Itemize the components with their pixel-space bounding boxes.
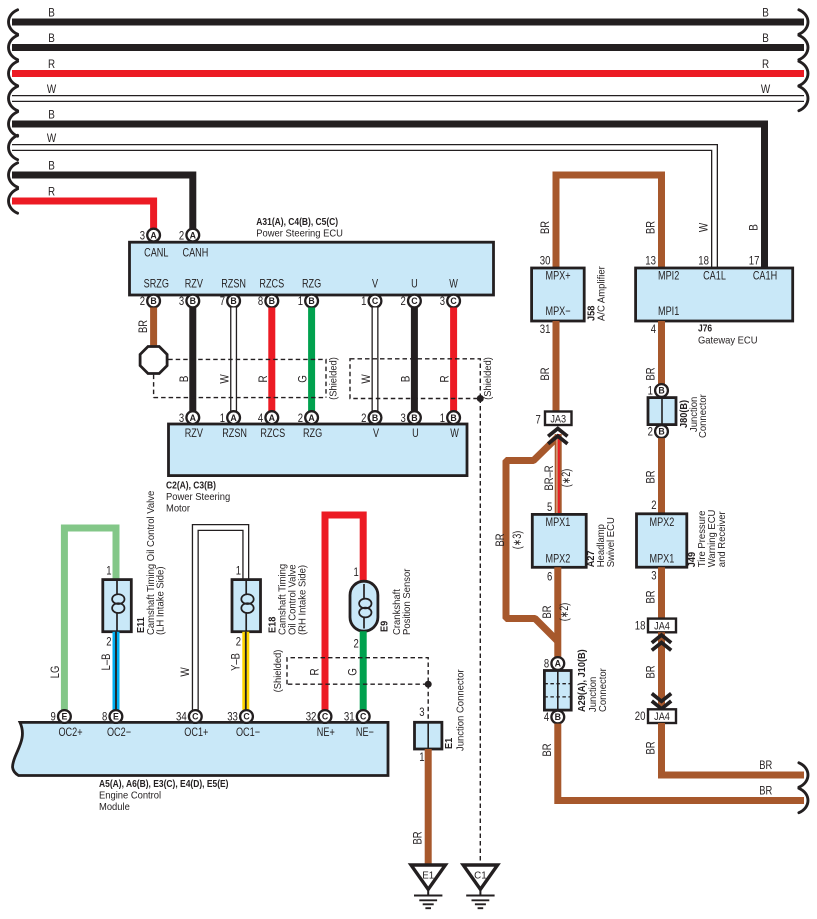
pin 34(C) ECM OC1+ (176, 710, 202, 724)
svg-text:1: 1 (106, 563, 112, 577)
svg-text:CA1H: CA1H (753, 268, 777, 282)
shield box VUW dashed (350, 359, 480, 399)
svg-text:A29(A), J10(B): A29(A), J10(B) (577, 649, 588, 712)
svg-text:3: 3 (440, 294, 446, 308)
svg-text:C: C (411, 296, 418, 306)
dashed shield drain to E1 connector (427, 684, 429, 722)
chevron down JA4-20 (652, 694, 671, 709)
break symbol right bus3 (799, 61, 808, 85)
svg-text:Module: Module (99, 802, 130, 813)
pin 33(C) ECM OC1− (227, 710, 253, 724)
svg-text:BR: BR (759, 759, 772, 772)
pin 2(A) Motor RZG (298, 411, 318, 425)
svg-text:LG: LG (49, 666, 62, 679)
svg-text:BR: BR (541, 744, 554, 757)
svg-text:C2(A), C3(B): C2(A), C3(B) (166, 480, 216, 491)
svg-text:3: 3 (179, 294, 185, 308)
svg-text:4: 4 (544, 710, 550, 724)
svg-text:B: B (555, 712, 561, 722)
svg-text:V: V (373, 426, 379, 440)
ECM A5 Engine Control Module box (13, 722, 388, 775)
svg-text:BR–R: BR–R (543, 466, 556, 491)
svg-text:(Shielded): (Shielded) (329, 357, 340, 400)
wire B RZV (189, 308, 196, 412)
pin 4(A) Motor RZCS (258, 411, 278, 425)
svg-text:1: 1 (648, 384, 654, 398)
svg-text:B: B (48, 7, 55, 20)
svg-text:2: 2 (401, 294, 407, 308)
connector JA4-18 box (648, 619, 676, 633)
svg-text:R: R (257, 375, 270, 382)
svg-text:5: 5 (547, 500, 553, 514)
svg-text:RZCS: RZCS (260, 426, 285, 440)
svg-text:RZV: RZV (185, 426, 203, 440)
pin 1(B) ECU bottom (298, 294, 318, 308)
svg-text:B: B (150, 296, 156, 306)
svg-text:(∗2): (∗2) (558, 603, 571, 622)
svg-text:JA4: JA4 (654, 711, 670, 723)
pin 1(B) Motor W (440, 411, 460, 425)
shield box RZV group dashed (154, 359, 326, 397)
svg-text:B: B (748, 224, 761, 231)
svg-text:2: 2 (298, 411, 304, 425)
svg-text:Y–B: Y–B (230, 653, 243, 671)
svg-text:R: R (309, 668, 322, 675)
svg-text:MPI2: MPI2 (658, 268, 680, 282)
wire BR J49 to JA4 (658, 567, 665, 618)
svg-text:E: E (61, 712, 67, 722)
svg-text:B: B (372, 413, 378, 423)
svg-text:W: W (360, 374, 373, 383)
pin 3(B) ECU bottom (179, 294, 199, 308)
pin 7(B) ECU bottom (220, 294, 240, 308)
wire BR A27 MPX2 down (554, 567, 561, 657)
pin 8(A) A29 (544, 657, 564, 671)
svg-text:1: 1 (440, 411, 446, 425)
svg-text:R: R (48, 186, 55, 199)
svg-text:Motor: Motor (166, 504, 191, 515)
svg-text:2: 2 (361, 411, 367, 425)
pin 1(B) J80 (648, 384, 668, 398)
svg-text:E9: E9 (380, 621, 391, 632)
svg-text:BR: BR (759, 784, 772, 797)
svg-text:A/C Amplifier: A/C Amplifier (597, 266, 608, 321)
wire W V phase (372, 308, 379, 412)
chevron continuation JA3 (548, 429, 567, 444)
svg-text:BR: BR (645, 742, 658, 755)
wire R RZCS (268, 308, 275, 412)
pin 31(C) ECM NE− (344, 710, 370, 724)
junction connector J80 box (648, 398, 676, 425)
Motor C2 Power Steering Motor box (169, 424, 468, 476)
wire BR JA4-20 to right edge (662, 723, 805, 775)
svg-text:NE+: NE+ (317, 725, 335, 739)
wire R W phase (450, 308, 457, 412)
svg-text:B: B (658, 386, 664, 396)
svg-text:W: W (47, 132, 56, 145)
svg-text:OC2−: OC2− (107, 725, 131, 739)
valve E11 Camshaft Timing Oil Control Valve box (103, 580, 132, 632)
svg-text:MPX−: MPX− (546, 304, 571, 318)
wire bus B5 to CA1H (12, 124, 765, 268)
pin 3(A) CANL (140, 228, 160, 242)
svg-text:B: B (658, 427, 664, 437)
svg-text:(RH Intake Side): (RH Intake Side) (298, 565, 309, 635)
svg-text:JA3: JA3 (550, 413, 566, 425)
svg-text:RZSN: RZSN (221, 276, 246, 290)
svg-text:BR: BR (494, 534, 507, 547)
svg-text:A31(A), C4(B), C5(C): A31(A), C4(B), C5(C) (256, 217, 338, 228)
svg-text:1: 1 (220, 411, 226, 425)
svg-text:G: G (297, 375, 310, 383)
svg-text:OC1+: OC1+ (184, 725, 208, 739)
svg-text:1: 1 (298, 294, 304, 308)
break symbol left bus3 (9, 61, 18, 85)
pin 3(A) Motor RZV (179, 411, 199, 425)
svg-text:Engine Control: Engine Control (99, 791, 161, 802)
break symbol left bus1 (9, 10, 18, 34)
svg-text:A: A (555, 659, 562, 669)
svg-text:A: A (269, 413, 276, 423)
wire bus W6 to CA1L (12, 148, 715, 269)
break symbol left bus6 (9, 135, 18, 159)
wire BR between JA4 (658, 632, 665, 709)
svg-text:B: B (308, 296, 314, 306)
svg-text:B: B (411, 413, 417, 423)
pin 1(A) Motor RZSN (220, 411, 240, 425)
svg-text:2: 2 (140, 294, 146, 308)
svg-text:C: C (450, 296, 457, 306)
break symbol right bus4 (799, 86, 808, 110)
svg-text:B: B (48, 32, 55, 45)
wire bus R3 horizontal (12, 70, 804, 77)
svg-text:3: 3 (140, 228, 146, 242)
svg-text:Junction Connector: Junction Connector (456, 669, 467, 751)
svg-text:C: C (372, 296, 379, 306)
svg-text:(LH Intake Side): (LH Intake Side) (156, 567, 167, 636)
svg-text:A5(A), A6(B), E3(C), E4(D), E5: A5(A), A6(B), E3(C), E4(D), E5(E) (99, 779, 229, 790)
svg-text:(Shielded): (Shielded) (273, 650, 284, 693)
svg-text:20: 20 (635, 709, 646, 723)
svg-text:3: 3 (401, 411, 407, 425)
svg-text:Power Steering ECU: Power Steering ECU (256, 229, 343, 240)
svg-text:B: B (230, 296, 236, 306)
pin 2(A) CANH (179, 228, 199, 242)
wire BR J80 to J49 (658, 438, 665, 514)
svg-text:Connector: Connector (698, 394, 709, 438)
svg-text:B: B (190, 296, 196, 306)
svg-text:W: W (449, 276, 458, 290)
svg-text:A: A (190, 230, 197, 240)
ECU A27 Headlamp Swivel ECU box (532, 514, 586, 567)
svg-text:2: 2 (354, 637, 360, 651)
svg-text:R: R (48, 58, 55, 71)
svg-text:1: 1 (361, 294, 367, 308)
svg-text:(∗3): (∗3) (511, 531, 524, 550)
svg-text:U: U (411, 276, 418, 290)
junction dot shield VUW (477, 395, 484, 402)
svg-text:6: 6 (547, 570, 553, 584)
svg-text:C: C (192, 712, 199, 722)
svg-text:J76: J76 (698, 324, 712, 335)
sensor E9 Crankshaft Position Sensor (350, 581, 378, 631)
svg-text:B: B (48, 160, 55, 173)
svg-text:MPX2: MPX2 (650, 515, 675, 529)
svg-text:Connector: Connector (598, 668, 609, 712)
ECU J49 Tire Pressure Warning ECU box (637, 514, 687, 567)
pin 3(C) ECU bottom (440, 294, 460, 308)
wire LG OC2+ loop (64, 528, 116, 710)
svg-text:G: G (347, 668, 360, 676)
wire W RZSN (230, 308, 237, 412)
svg-text:32: 32 (306, 710, 317, 724)
svg-text:Power Steering: Power Steering (166, 492, 231, 503)
svg-text:7: 7 (220, 294, 226, 308)
wire Y-B E18 to OC1- (242, 632, 249, 710)
wire W OC1+ loop (195, 528, 246, 710)
pin 1(C) ECU bottom (361, 294, 381, 308)
svg-text:3: 3 (419, 705, 425, 719)
wire bus B2 horizontal (12, 44, 804, 51)
svg-text:4: 4 (258, 411, 264, 425)
pin 3(B) Motor U (401, 411, 421, 425)
svg-text:BR: BR (645, 666, 658, 679)
svg-text:and Receiver: and Receiver (717, 511, 728, 567)
wire bus W4 horizontal (12, 95, 804, 102)
svg-text:W: W (450, 426, 459, 440)
svg-text:BR: BR (539, 221, 552, 234)
pin 2(B) Motor V (361, 411, 381, 425)
svg-text:(Shielded): (Shielded) (483, 357, 494, 400)
svg-text:RZCS: RZCS (259, 276, 284, 290)
svg-text:Swivel ECU: Swivel ECU (606, 517, 617, 567)
svg-text:V: V (372, 276, 378, 290)
shield box NE dashed (287, 658, 428, 685)
junction connector E1 box (415, 722, 442, 749)
wire R NE+ loop (325, 515, 363, 710)
svg-text:R: R (439, 375, 452, 382)
svg-text:BR: BR (539, 368, 552, 381)
ECU A31 Power Steering ECU box (130, 242, 494, 295)
wire BR SRZG to noise filter (150, 308, 157, 346)
svg-text:E: E (113, 712, 119, 722)
svg-text:R: R (762, 58, 769, 71)
pin 2(B) ECU bottom (140, 294, 160, 308)
break symbol BR bus1 (799, 763, 808, 787)
svg-text:OC2+: OC2+ (58, 725, 82, 739)
svg-text:3: 3 (179, 411, 185, 425)
svg-text:2: 2 (648, 425, 654, 439)
svg-text:OC1−: OC1− (236, 725, 260, 739)
svg-text:1: 1 (354, 565, 360, 579)
svg-text:C: C (322, 712, 329, 722)
valve E18 Camshaft Timing Oil Control Valve box (232, 580, 261, 632)
svg-text:Gateway ECU: Gateway ECU (698, 336, 758, 347)
wire BR bypass loop *3 (506, 438, 558, 642)
noise filter octagon (140, 347, 167, 374)
svg-text:8: 8 (544, 657, 550, 671)
break symbol right bus2 (799, 35, 808, 59)
break symbol left bus4 (9, 86, 18, 110)
wire G E9 to NE- (360, 631, 367, 710)
svg-text:B: B (48, 109, 55, 122)
svg-text:W: W (179, 667, 192, 676)
svg-text:A: A (230, 413, 237, 423)
break symbol left bus8 (9, 189, 18, 213)
chevron up JA4-18 (652, 635, 671, 650)
junction connector A29 J10 grid box (544, 671, 571, 711)
svg-text:Position Sensor: Position Sensor (402, 568, 413, 635)
svg-text:7: 7 (536, 412, 542, 426)
svg-text:JA4: JA4 (654, 621, 670, 633)
svg-text:CA1L: CA1L (703, 268, 726, 282)
svg-text:2: 2 (236, 635, 242, 649)
svg-text:E1: E1 (422, 871, 434, 882)
svg-text:C: C (360, 712, 367, 722)
svg-text:BR: BR (541, 606, 554, 619)
svg-text:18: 18 (635, 619, 646, 633)
svg-text:9: 9 (51, 710, 57, 724)
wire BR J58 to J76 MPX (556, 175, 662, 268)
ground E1 (411, 865, 445, 889)
svg-text:2: 2 (179, 228, 185, 242)
svg-text:C: C (243, 712, 250, 722)
connector JA4-20 box (648, 709, 676, 723)
svg-text:2: 2 (106, 635, 112, 649)
svg-text:RZG: RZG (303, 426, 322, 440)
pin 9(E) ECM OC2+ (51, 710, 71, 724)
svg-text:RZG: RZG (302, 276, 321, 290)
wire B U phase (411, 308, 418, 412)
wire bus R8 to CANL (12, 201, 154, 229)
ECU J58 A/C Amplifier box (532, 268, 585, 321)
wire bus B1 horizontal (12, 19, 804, 26)
svg-text:BR: BR (645, 591, 658, 604)
wire BR J58-31 to JA3 (553, 321, 560, 412)
svg-text:A: A (150, 230, 157, 240)
svg-text:RZSN: RZSN (222, 426, 247, 440)
svg-text:BR: BR (645, 471, 658, 484)
pin 2(B) J80 (648, 425, 668, 439)
wire L-B E11 to OC2- (113, 632, 120, 710)
ECU J76 Gateway ECU box (636, 268, 793, 321)
break symbol right bus1 (799, 10, 808, 34)
svg-text:L–B: L–B (100, 653, 113, 670)
break symbol left bus5 (9, 112, 18, 136)
svg-text:NE−: NE− (356, 725, 374, 739)
svg-text:W: W (47, 83, 56, 96)
svg-text:MPX2: MPX2 (546, 551, 571, 565)
svg-text:MPX+: MPX+ (546, 268, 571, 282)
svg-text:BR: BR (137, 320, 150, 333)
svg-text:1: 1 (419, 750, 425, 764)
pin 8(E) ECM OC2− (102, 710, 122, 724)
break symbol BR bus2 (799, 788, 808, 812)
svg-text:18: 18 (698, 253, 709, 267)
svg-text:B: B (762, 32, 769, 45)
svg-text:MPX1: MPX1 (650, 551, 675, 565)
svg-text:SRZG: SRZG (144, 276, 169, 290)
svg-text:W: W (219, 374, 232, 383)
svg-text:MPI1: MPI1 (658, 304, 680, 318)
svg-text:W: W (698, 223, 711, 232)
svg-text:30: 30 (540, 253, 551, 267)
svg-text:BR: BR (412, 832, 425, 845)
pin 8(B) ECU bottom (258, 294, 278, 308)
wire bus B7 to CANH (12, 175, 193, 229)
svg-text:B: B (450, 413, 456, 423)
wire BR A29 to right edge (558, 724, 804, 801)
wire BR E1 to ground (425, 749, 432, 866)
svg-text:BR: BR (645, 221, 658, 234)
wire BR MPI1 to J80 (658, 321, 665, 384)
connector JA3 box (545, 412, 572, 426)
svg-text:B: B (762, 7, 769, 20)
svg-text:8: 8 (102, 710, 108, 724)
svg-text:33: 33 (227, 710, 238, 724)
pin 4(B) A29 (544, 710, 564, 724)
break symbol left bus7 (9, 163, 18, 187)
svg-text:4: 4 (651, 322, 657, 336)
svg-text:1: 1 (236, 563, 242, 577)
dashed shield drain to C1 (479, 399, 481, 864)
svg-text:BR: BR (645, 368, 658, 381)
svg-text:A: A (308, 413, 315, 423)
svg-text:A: A (190, 413, 197, 423)
svg-text:31: 31 (344, 710, 355, 724)
break symbol left bus2 (9, 35, 18, 59)
svg-text:3: 3 (651, 569, 657, 583)
svg-text:B: B (178, 376, 191, 383)
svg-text:8: 8 (258, 294, 264, 308)
wire G RZG (308, 308, 315, 412)
svg-text:CANH: CANH (183, 246, 209, 260)
svg-text:RZV: RZV (185, 276, 203, 290)
svg-text:2: 2 (651, 498, 657, 512)
svg-text:13: 13 (645, 253, 656, 267)
svg-text:17: 17 (749, 253, 760, 267)
svg-text:B: B (399, 376, 412, 383)
svg-text:W: W (761, 83, 770, 96)
svg-text:34: 34 (176, 710, 187, 724)
svg-text:B: B (269, 296, 275, 306)
svg-text:U: U (412, 426, 419, 440)
svg-text:31: 31 (540, 322, 551, 336)
junction dot shield NE (425, 681, 432, 688)
ground C1 (463, 865, 497, 889)
svg-text:E1: E1 (444, 738, 455, 749)
svg-text:CANL: CANL (144, 246, 169, 260)
svg-text:C1: C1 (474, 871, 487, 882)
svg-text:(∗2): (∗2) (560, 469, 573, 488)
svg-text:MPX1: MPX1 (546, 515, 571, 529)
wire BR-R JA3 to A27 MPX1 (555, 434, 562, 514)
pin 2(C) ECU bottom (401, 294, 421, 308)
pin 32(C) ECM NE+ (306, 710, 332, 724)
